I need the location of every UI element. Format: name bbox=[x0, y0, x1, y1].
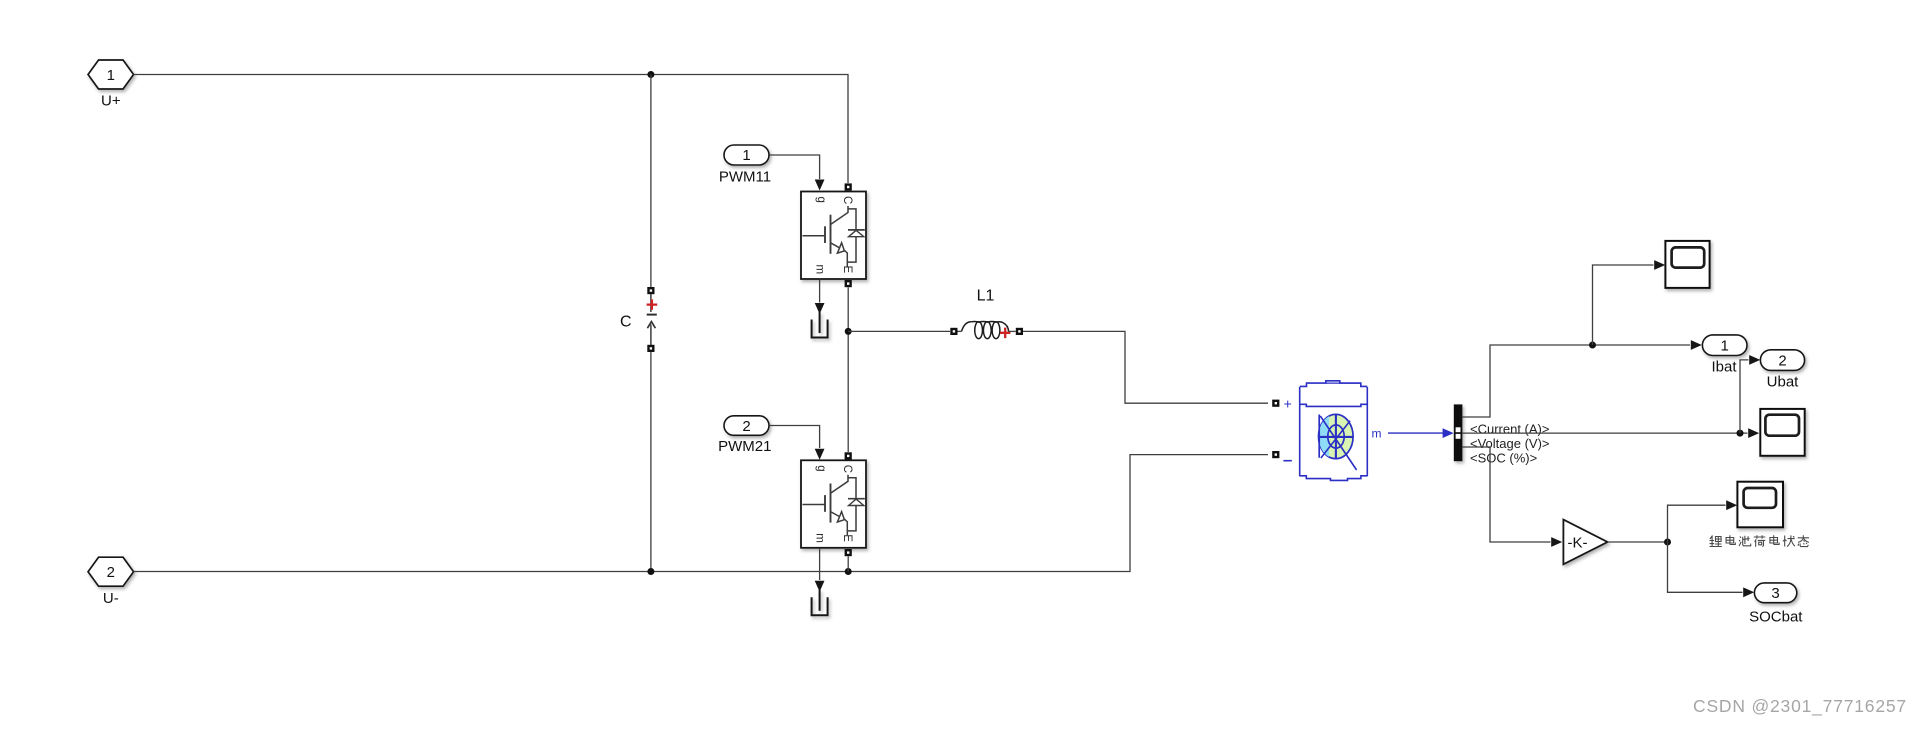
svg-text:m: m bbox=[1372, 426, 1382, 440]
node bottom-rail IGBT junction bbox=[845, 568, 852, 575]
pin C port square IGBT2 bbox=[845, 452, 852, 459]
bus selector bbox=[1454, 404, 1463, 461]
svg-text:1: 1 bbox=[742, 147, 750, 164]
svg-text:SOCbat: SOCbat bbox=[1749, 608, 1803, 625]
svg-text:2: 2 bbox=[107, 564, 115, 581]
inport 2 U- bbox=[88, 557, 134, 586]
wire IGBT1 m to ground bbox=[819, 279, 821, 302]
node mid (switch midpoint) bbox=[845, 328, 852, 335]
svg-text:+: + bbox=[1284, 395, 1292, 411]
svg-text:g: g bbox=[815, 465, 827, 471]
wire capacitor bottom bbox=[650, 352, 652, 572]
svg-text:<Current (A)>: <Current (A)> bbox=[1470, 421, 1549, 436]
ground G2 bbox=[815, 581, 825, 592]
svg-text:g: g bbox=[815, 196, 827, 202]
svg-text:U-: U- bbox=[103, 590, 119, 607]
transistor IGBT2 bbox=[801, 460, 866, 548]
wire top rail bbox=[134, 75, 848, 184]
svg-text:Ibat: Ibat bbox=[1711, 359, 1737, 376]
wire voltage signal bbox=[1462, 432, 1747, 434]
svg-text:m: m bbox=[813, 533, 825, 543]
node current branch bbox=[1589, 342, 1596, 349]
svg-text:E: E bbox=[841, 534, 853, 542]
inport 1 U+ bbox=[88, 60, 134, 89]
svg-text:Ubat: Ubat bbox=[1767, 374, 1800, 391]
wire SOC to SOCbat bbox=[1668, 542, 1743, 592]
svg-text:PWM21: PWM21 bbox=[718, 438, 771, 455]
inductor L1 bbox=[950, 321, 1023, 338]
svg-text:C: C bbox=[620, 314, 632, 331]
wire L1 to battery plus bbox=[1023, 331, 1268, 403]
svg-text:C: C bbox=[841, 196, 853, 204]
svg-text:E: E bbox=[841, 265, 853, 273]
svg-text:<SOC (%)>: <SOC (%)> bbox=[1470, 450, 1537, 465]
svg-text:m: m bbox=[813, 265, 825, 275]
svg-text:CSDN @2301_77716257: CSDN @2301_77716257 bbox=[1693, 696, 1907, 717]
wire battery m to bus (blue) bbox=[1388, 432, 1444, 434]
scope Scope3 bbox=[1737, 482, 1783, 528]
node voltage branch bbox=[1737, 430, 1744, 437]
svg-text:1: 1 bbox=[107, 67, 115, 84]
svg-text:L1: L1 bbox=[977, 288, 995, 305]
wire PWM11 to gate bbox=[769, 155, 819, 179]
scope Scope2 bbox=[1760, 409, 1804, 456]
svg-text:1: 1 bbox=[1721, 337, 1729, 354]
pin E port square IGBT2 bbox=[845, 549, 852, 556]
wire capacitor top bbox=[650, 75, 652, 288]
wire gain output bbox=[1608, 541, 1668, 543]
outport Ibat pill 1 bbox=[1702, 335, 1747, 356]
wire SOC to scope3 bbox=[1668, 505, 1726, 542]
svg-text:<Voltage (V)>: <Voltage (V)> bbox=[1470, 436, 1550, 451]
svg-text:PWM11: PWM11 bbox=[719, 169, 771, 186]
node SOC branch bbox=[1664, 539, 1671, 546]
wire SOC signal to gain bbox=[1462, 447, 1550, 542]
wire IGBT2 E to bottom rail bbox=[847, 556, 849, 571]
node bottom-rail capacitor junction bbox=[647, 568, 654, 575]
svg-text:2: 2 bbox=[742, 418, 750, 435]
pin E port square IGBT1 bbox=[845, 280, 852, 287]
ground G1 bbox=[815, 303, 825, 314]
pin C port square IGBT1 bbox=[845, 183, 852, 190]
outport SOCbat pill 3 bbox=[1754, 583, 1796, 603]
label lithium battery SOC (CJK glyph strokes) bbox=[1710, 535, 1810, 547]
svg-text:C: C bbox=[841, 465, 853, 473]
node top-rail / capacitor junction bbox=[647, 71, 654, 78]
wire PWM21 to gate bbox=[769, 426, 819, 449]
wire bottom rail bbox=[134, 455, 1268, 572]
wire current to scope1 bbox=[1593, 265, 1654, 345]
svg-text:3: 3 bbox=[1771, 585, 1779, 602]
outport Ubat pill 2 bbox=[1760, 350, 1804, 371]
battery - port bbox=[1272, 451, 1279, 458]
battery block bbox=[1300, 381, 1368, 481]
svg-text:-K-: -K- bbox=[1568, 535, 1588, 552]
scope Scope1 bbox=[1665, 241, 1709, 288]
wire current signal bbox=[1462, 345, 1690, 417]
gain -K- bbox=[1563, 520, 1607, 565]
capacitor C bbox=[647, 287, 658, 352]
wire voltage to Ubat bbox=[1740, 360, 1749, 433]
battery + port bbox=[1272, 400, 1279, 407]
svg-text:U+: U+ bbox=[101, 93, 121, 110]
transistor IGBT1 bbox=[801, 192, 866, 280]
svg-text:2: 2 bbox=[1778, 352, 1786, 369]
wire IGBT2 m to ground bbox=[819, 548, 821, 580]
inport PWM11 pill 1 bbox=[724, 145, 769, 165]
wire mid node to L1 bbox=[848, 330, 950, 332]
inport PWM21 pill 2 bbox=[724, 416, 769, 436]
wire IGBT1 E down to mid node bbox=[847, 287, 849, 452]
